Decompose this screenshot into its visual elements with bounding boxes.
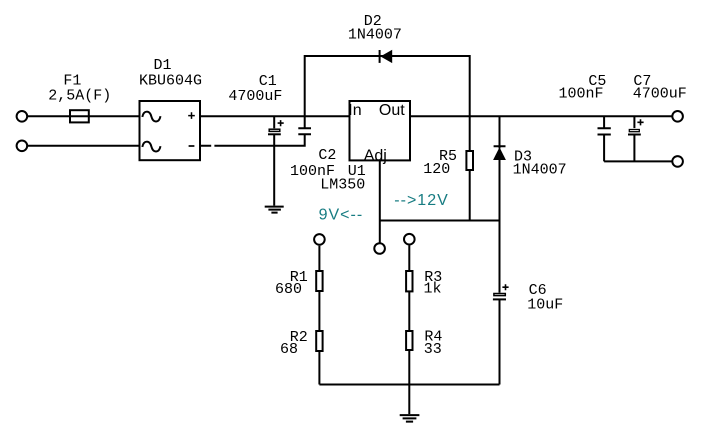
- terminal circle adj: [374, 243, 385, 254]
- svg-text:68: 68: [280, 341, 298, 358]
- svg-text:-->12V: -->12V: [394, 192, 448, 209]
- wire adj rail: [380, 220, 500, 222]
- resistor R2: [316, 331, 322, 351]
- regulator U1 LM350 box: [350, 101, 411, 160]
- sine symbol top: [142, 112, 160, 122]
- capacitor C6: [499, 221, 501, 293]
- wire bottom input: [28, 145, 140, 147]
- svg-text:1N4007: 1N4007: [513, 161, 567, 178]
- svg-text:Out: Out: [379, 102, 405, 119]
- wire bottom rail bridge to C2: [200, 134, 305, 146]
- svg-text:C2: C2: [318, 147, 336, 164]
- svg-text:In: In: [348, 102, 361, 119]
- diode D2 triangle: [380, 50, 392, 63]
- svg-text:1N4007: 1N4007: [348, 27, 402, 44]
- svg-text:10uF: 10uF: [527, 297, 563, 314]
- fuse F1: [70, 110, 89, 122]
- wire to ground bottom: [408, 385, 410, 415]
- wire C6 to bottom rail: [499, 299, 501, 384]
- diode D2: [379, 50, 381, 63]
- sine symbol bottom: [142, 142, 160, 152]
- svg-text:Adj: Adj: [364, 147, 387, 164]
- terminal circle R3: [404, 234, 415, 245]
- capacitor C1: [273, 116, 275, 128]
- resistor R1 chain: [318, 246, 320, 271]
- svg-text:680: 680: [275, 281, 302, 298]
- capacitor C7: [633, 116, 635, 128]
- resistor R3 chain: [408, 246, 410, 272]
- wire top input: [28, 115, 140, 117]
- svg-text:4700uF: 4700uF: [228, 88, 282, 105]
- svg-text:100nF: 100nF: [559, 86, 604, 103]
- svg-text:1k: 1k: [424, 281, 442, 298]
- svg-text:120: 120: [423, 161, 450, 178]
- diode D3 wire: [494, 116, 506, 220]
- input terminal top: [17, 111, 28, 122]
- svg-text:D1: D1: [154, 57, 172, 74]
- wire output bottom: [604, 160, 672, 162]
- output terminal top: [672, 111, 683, 122]
- terminal circle R1: [314, 234, 325, 245]
- input terminal bottom: [17, 141, 28, 152]
- wire C1 to ground: [273, 134, 275, 205]
- wire R5 stub and resistor R5: [469, 116, 471, 151]
- wire D2 branch loop: [305, 56, 470, 116]
- resistor R4: [406, 331, 412, 350]
- minus mark in bridge: [189, 145, 195, 147]
- svg-text:KBU604G: KBU604G: [139, 72, 202, 89]
- capacitor C5: [598, 116, 611, 161]
- ground under C1: [265, 207, 284, 213]
- wire out rail: [410, 115, 672, 117]
- svg-text:9V<--: 9V<--: [319, 207, 364, 224]
- wire top rail bridge to U1: [200, 115, 350, 117]
- wire bottom rail: [319, 384, 499, 386]
- wire adj pin down: [379, 160, 381, 243]
- svg-text:LM350: LM350: [320, 176, 365, 193]
- plus mark in bridge: [188, 112, 195, 119]
- svg-text:4700uF: 4700uF: [633, 86, 687, 103]
- svg-text:33: 33: [424, 341, 442, 358]
- diode D3 triangle: [493, 147, 506, 160]
- output terminal bottom: [672, 156, 683, 167]
- ground bottom: [400, 415, 420, 422]
- svg-text:2,5A(F): 2,5A(F): [48, 88, 111, 105]
- bridge rectifier D1: [140, 101, 201, 160]
- capacitor C2: [298, 116, 311, 134]
